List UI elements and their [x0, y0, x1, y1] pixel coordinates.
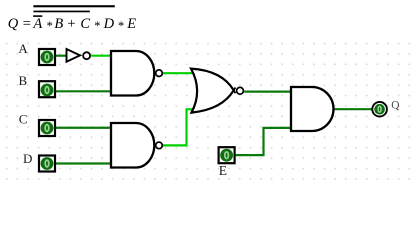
formula overbar A	[33, 15, 42, 17]
svg-text:C: C	[19, 112, 28, 127]
svg-text:Q: Q	[391, 99, 400, 111]
svg-text:*: *	[94, 19, 101, 33]
input box B	[39, 81, 55, 97]
wire NOR output to AND gate	[244, 90, 291, 92]
input box D	[39, 156, 55, 172]
wire AND output to Q LED	[334, 108, 373, 110]
svg-text:E: E	[219, 163, 227, 178]
svg-text:D: D	[103, 16, 115, 32]
input box C	[39, 120, 55, 136]
svg-text:A: A	[18, 41, 28, 56]
svg-text:C: C	[80, 16, 90, 32]
NAND gate U2 body	[111, 51, 154, 96]
svg-text:B: B	[19, 73, 28, 88]
NOR gate U4 bubble	[237, 87, 244, 94]
wire NAND1 output to NOR (high)	[163, 72, 196, 74]
NAND gate U3 bubble	[156, 142, 163, 149]
svg-text:E: E	[126, 16, 136, 32]
input box A	[39, 49, 55, 65]
wire inverter output to NAND1 (high)	[91, 55, 111, 57]
AND gate U5 body	[291, 87, 334, 131]
formula text Q = A*B+C*D*E	[8, 16, 136, 33]
wire D box to NAND2	[56, 162, 111, 164]
svg-text:+: +	[67, 16, 75, 32]
svg-text:B: B	[54, 16, 63, 32]
wire E box to AND gate	[236, 128, 291, 155]
input box E	[219, 147, 235, 163]
output LED Q	[372, 102, 387, 117]
grid dots	[0, 40, 414, 185]
NOR gate U4 body	[191, 69, 234, 113]
wire C box to NAND2	[56, 127, 111, 129]
svg-text:*: *	[117, 19, 124, 33]
svg-text:D: D	[23, 151, 32, 166]
formula overbar outer (over A*B+C*D)	[33, 5, 114, 7]
inverter U1 triangle	[67, 49, 81, 62]
wire NAND2 output to NOR (high)	[163, 109, 194, 145]
formula overbar middle (over A*B+C)	[33, 11, 89, 13]
svg-text:*: *	[46, 19, 53, 33]
NAND gate U3 body	[111, 123, 154, 168]
wire A box to inverter	[56, 55, 67, 57]
svg-text:=: =	[23, 16, 31, 32]
svg-text:A: A	[32, 16, 42, 32]
wire B box to NAND1	[56, 90, 111, 92]
NAND gate U2 bubble	[156, 70, 163, 77]
inverter U1 bubble	[83, 52, 90, 59]
svg-text:Q: Q	[8, 16, 19, 32]
